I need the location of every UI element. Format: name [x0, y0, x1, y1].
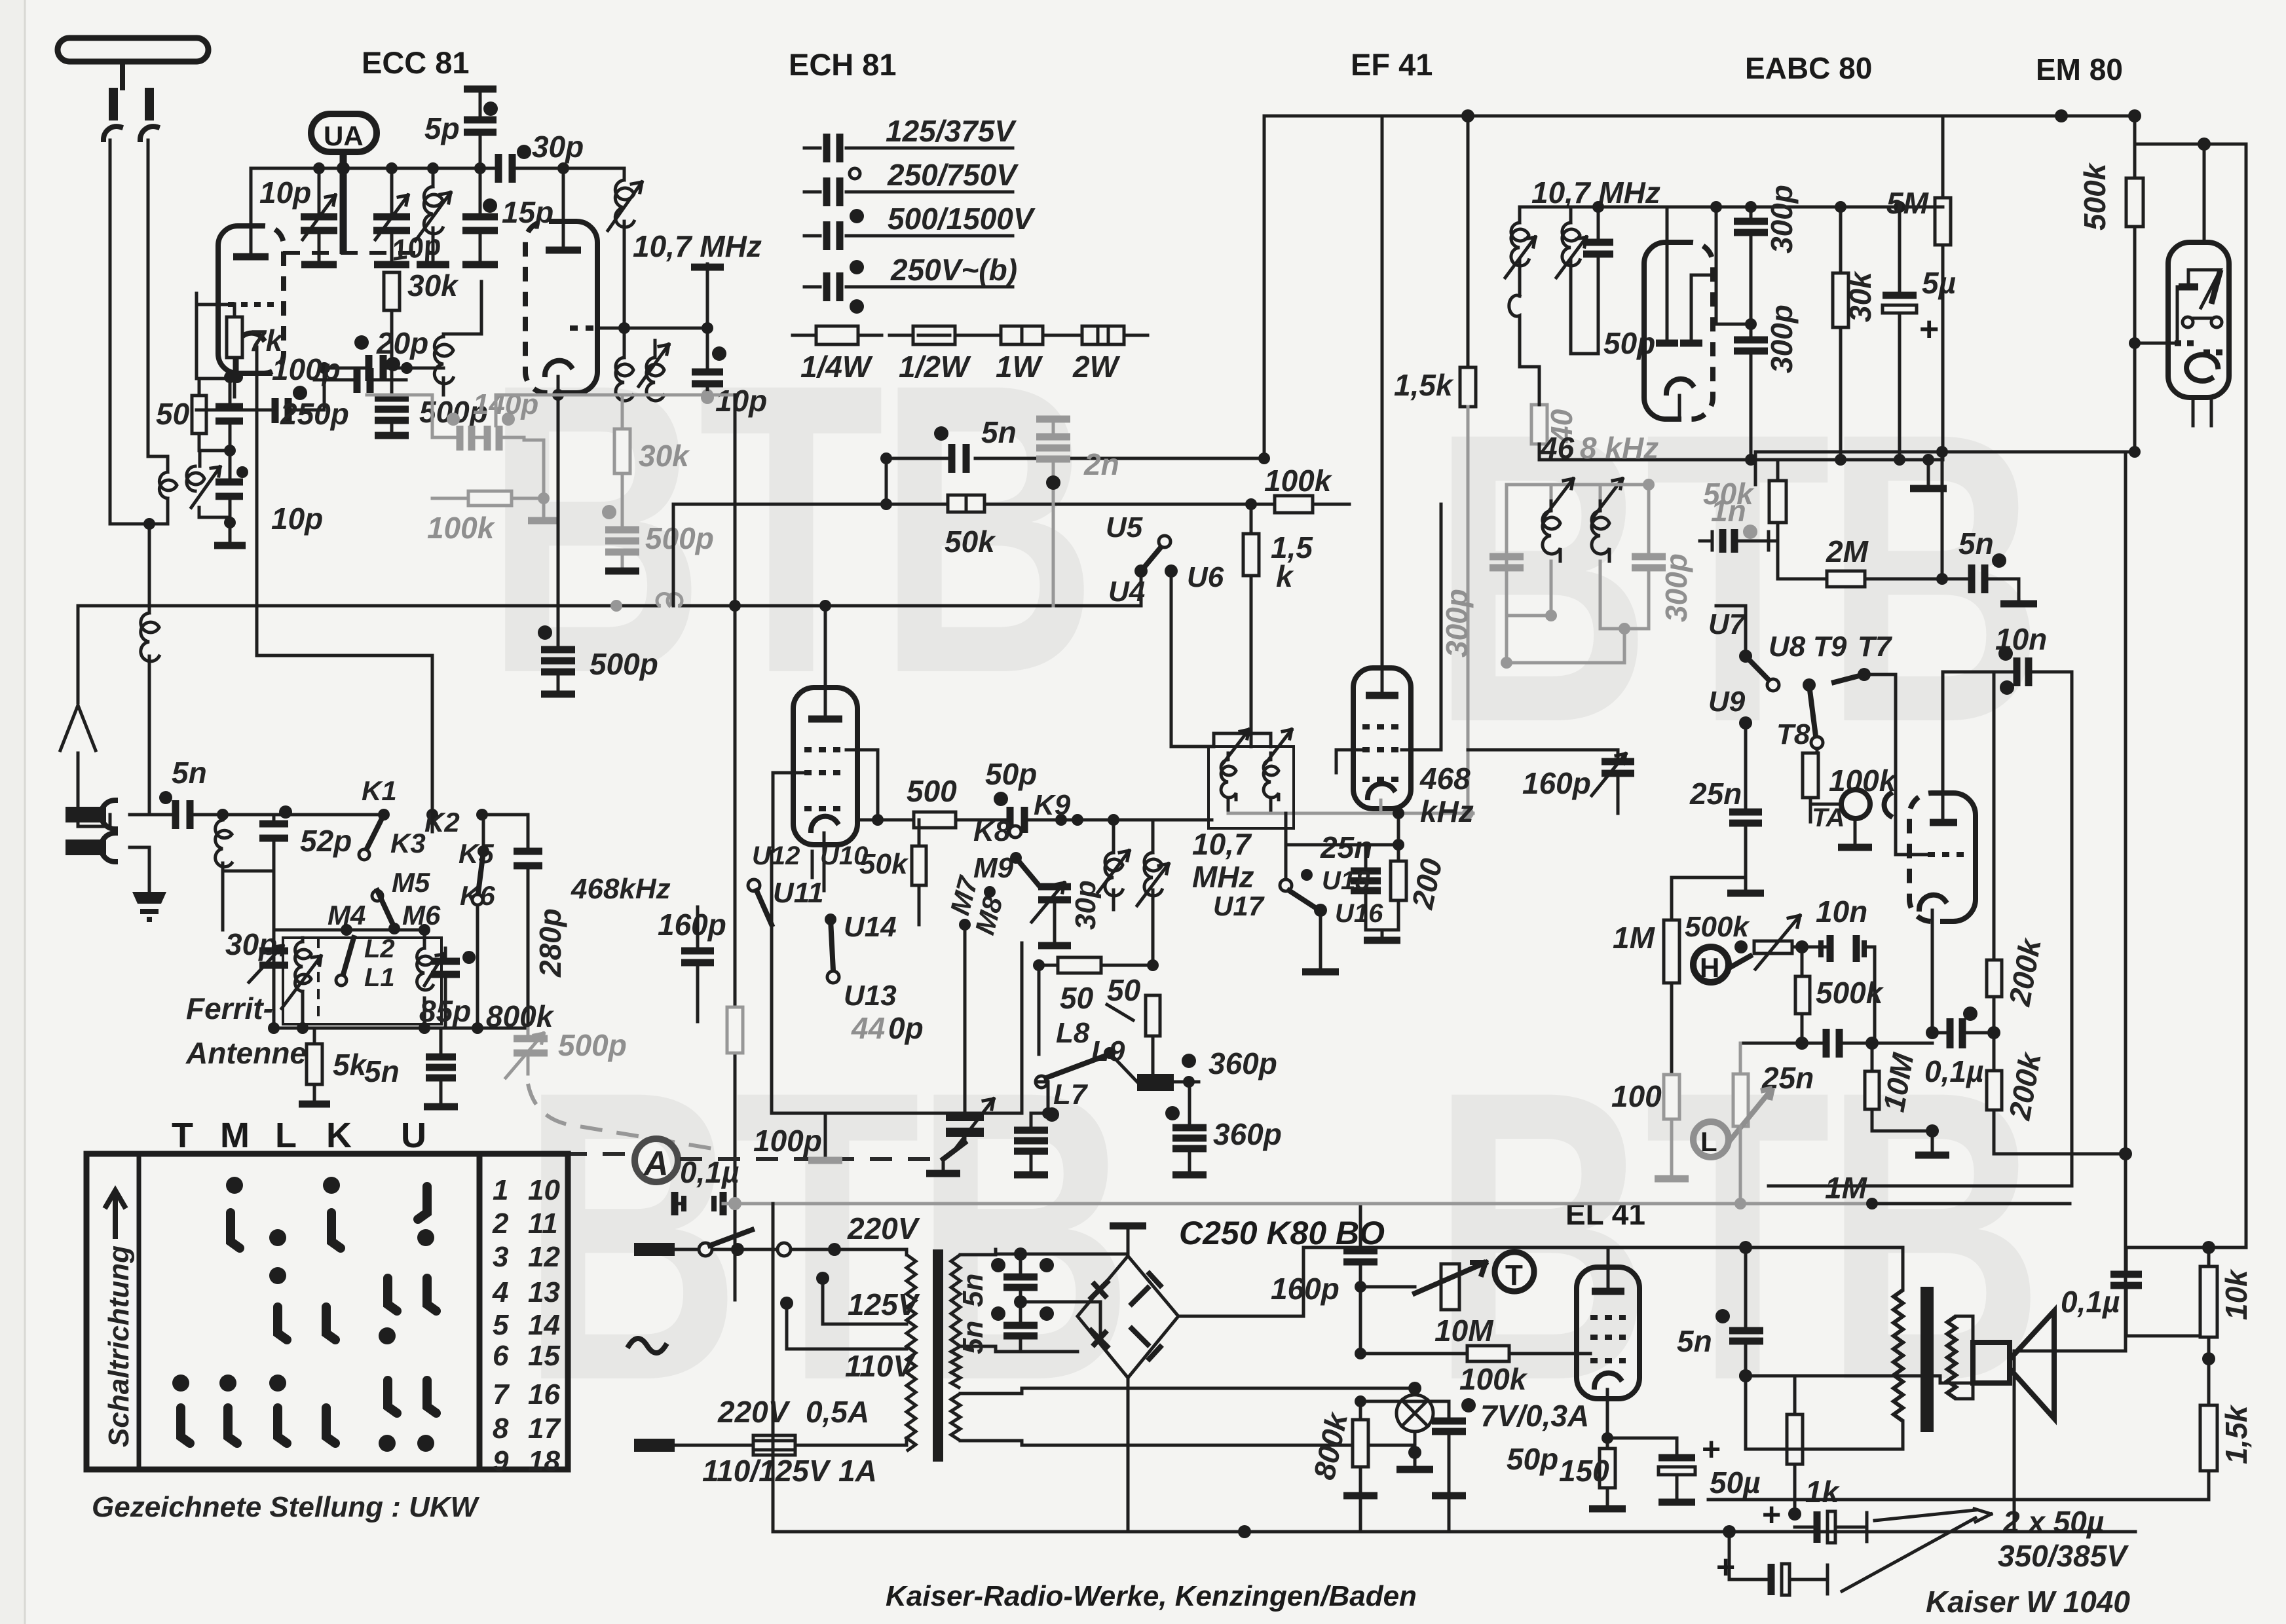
svg-text:L7: L7	[1053, 1079, 1089, 1111]
SECTION: left column	[58, 38, 721, 1150]
ground 200	[1366, 929, 1398, 932]
dial lamp	[1396, 1395, 1433, 1431]
svg-text:UA: UA	[324, 120, 364, 151]
gray 500p cap	[605, 530, 639, 552]
wire EABC out right rail	[2014, 452, 2135, 1532]
capacitor 300p upper	[1734, 221, 1768, 232]
resistor 50k mixer	[912, 846, 926, 885]
contact chart hooks	[181, 1187, 436, 1443]
capacitor 25n H series	[1740, 1042, 1932, 1045]
svg-text:5p: 5p	[424, 111, 460, 145]
capacitor 5n ps top	[1003, 1277, 1038, 1287]
tank det 1	[1507, 485, 1598, 663]
svg-text:U18: U18	[1322, 866, 1370, 895]
svg-text:13: 13	[528, 1276, 560, 1308]
resistor 500k H	[1795, 976, 1810, 1014]
resistor 150 cathode	[1600, 1449, 1615, 1488]
svg-text:T8: T8	[1776, 718, 1810, 750]
coil input coupling	[166, 456, 170, 524]
wire sec return	[1746, 1376, 1903, 1449]
speaker return wires	[1940, 1376, 1973, 1383]
svg-text:EF 41: EF 41	[1351, 47, 1433, 82]
svg-text:16: 16	[528, 1378, 560, 1411]
SECTION: middle	[60, 395, 1349, 1300]
gray cathode line	[1287, 812, 1473, 815]
svg-text:10p: 10p	[715, 384, 767, 418]
svg-text:50k: 50k	[945, 525, 996, 559]
svg-text:L8: L8	[1056, 1017, 1090, 1049]
svg-text:1M: 1M	[1825, 1171, 1868, 1205]
svg-text:110/125V: 110/125V	[702, 1454, 831, 1488]
svg-text:500k: 500k	[1816, 976, 1884, 1010]
resistor 5k	[307, 1044, 322, 1084]
transformer core	[933, 1249, 943, 1462]
svg-text:8 kHz: 8 kHz	[1580, 431, 1658, 465]
cathode EABC80 triode	[1919, 895, 1945, 909]
svg-text:0,5A: 0,5A	[806, 1395, 869, 1429]
switch U11	[748, 879, 760, 891]
svg-text:100: 100	[1611, 1079, 1662, 1113]
wire antenna left lead	[110, 140, 168, 524]
H volume control	[1693, 947, 1729, 982]
svg-text:125V: 125V	[848, 1287, 920, 1321]
capacitor 2n gray	[1036, 416, 1070, 423]
svg-text:15: 15	[528, 1340, 560, 1372]
grid ECC81a	[228, 302, 274, 307]
ferrite coil	[301, 938, 305, 942]
resistor 50k	[948, 495, 984, 512]
svg-text:500p: 500p	[558, 1028, 627, 1062]
capacitor 5n out	[1729, 1331, 1763, 1341]
capacitor 5n ps bottom	[1003, 1325, 1038, 1336]
transformer primary	[905, 1249, 909, 1255]
svg-text:30k: 30k	[407, 268, 459, 303]
trimmer 30p am	[259, 951, 288, 965]
resistor 50	[192, 396, 206, 434]
capacitor 100p mixer	[1014, 1130, 1048, 1151]
SECTION: right	[1264, 109, 2246, 1247]
svg-text:T9: T9	[1813, 631, 1847, 663]
svg-text:5n: 5n	[1677, 1324, 1712, 1358]
svg-text:C250 K80 BO: C250 K80 BO	[1179, 1215, 1385, 1251]
resistor 800k	[727, 1007, 743, 1053]
box mixer	[772, 851, 1022, 1113]
triode ECC81a envelope	[218, 226, 270, 373]
output transformer primary	[1746, 1247, 1903, 1290]
svg-text:100k: 100k	[1459, 1362, 1528, 1396]
dashed line meter	[680, 1157, 943, 1161]
contact chart dots	[172, 1177, 434, 1452]
capacitor 300p lower	[1734, 340, 1768, 351]
capacitor 85p	[431, 961, 460, 974]
svg-text:7k: 7k	[249, 323, 284, 358]
trimmer coil A	[1518, 207, 1522, 223]
svg-text:+: +	[1919, 310, 1939, 348]
wire 1M top	[1672, 876, 1746, 879]
svg-text:10p: 10p	[271, 502, 323, 536]
svg-text:0,1µ: 0,1µ	[680, 1155, 739, 1189]
svg-text:K3: K3	[390, 828, 426, 858]
EF41 cathode	[1368, 784, 1394, 798]
svg-text:220V: 220V	[847, 1211, 920, 1246]
resistor 30k osc	[384, 272, 400, 310]
svg-text:1/2W: 1/2W	[899, 350, 971, 384]
svg-text:50: 50	[156, 397, 190, 431]
svg-text:5n: 5n	[957, 1274, 989, 1307]
capacitor 100p in	[215, 407, 243, 421]
capacitor 10p IF	[702, 322, 713, 334]
mains plug top	[634, 1243, 675, 1256]
wire EM80 sub bus	[2135, 144, 2246, 1247]
cathode ECC81b	[545, 361, 571, 375]
AM input coil	[221, 815, 225, 902]
tank det coil 2	[1592, 479, 1622, 561]
svg-text:220V: 220V	[717, 1395, 791, 1429]
cathode EABC80 diode	[1666, 379, 1693, 393]
EL41 envelope	[1577, 1267, 1608, 1399]
svg-text:L: L	[1700, 1126, 1717, 1157]
EM80 target	[2203, 144, 2206, 242]
wire EL41 plate up	[1608, 1246, 1746, 1249]
switch T7 node	[1858, 668, 1871, 681]
svg-text:2n: 2n	[1083, 447, 1119, 481]
EL41 grids	[1590, 1318, 1626, 1361]
wire det out up	[1941, 452, 1944, 579]
switch K2	[426, 809, 438, 821]
coil tap	[141, 613, 159, 661]
svg-text:110V: 110V	[845, 1349, 915, 1383]
svg-text:L2: L2	[364, 934, 395, 963]
tap 110V	[780, 1297, 793, 1310]
svg-text:U: U	[401, 1116, 432, 1155]
coil grid ECC81b	[442, 334, 445, 337]
svg-text:800k: 800k	[486, 999, 555, 1033]
svg-text:U12: U12	[752, 841, 800, 870]
svg-text:18: 18	[528, 1445, 560, 1477]
AC tilde	[629, 1338, 665, 1353]
grounds mixer	[824, 1113, 827, 1159]
svg-text:EM 80: EM 80	[2036, 52, 2123, 86]
svg-text:52p: 52p	[300, 824, 352, 858]
SECTION: ecc81	[197, 89, 767, 694]
svg-text:L: L	[275, 1116, 302, 1155]
legend resistor 1/4W	[793, 334, 882, 337]
svg-text:EABC 80: EABC 80	[1745, 51, 1872, 85]
wire antenna right lead	[148, 140, 168, 456]
svg-text:+: +	[1762, 1496, 1781, 1533]
mains plug bottom	[634, 1439, 675, 1452]
svg-text:44: 44	[851, 1011, 885, 1045]
capacitor 30p series	[498, 154, 512, 183]
cathode bypass wire	[557, 395, 560, 648]
svg-text:500p: 500p	[590, 647, 658, 681]
legend resistor 1/2W	[890, 334, 979, 337]
resistor 50 vertical	[1146, 995, 1160, 1036]
svg-text:5k: 5k	[333, 1048, 368, 1082]
svg-text:U6: U6	[1187, 561, 1224, 593]
resistor 100k EL41	[1355, 1348, 1366, 1359]
svg-text:MHz: MHz	[1192, 860, 1254, 894]
ECH81 grids	[804, 750, 846, 809]
capacitor 500p osc	[375, 398, 409, 420]
svg-text:85p: 85p	[419, 994, 471, 1028]
chassis ground	[132, 892, 166, 904]
svg-text:50: 50	[1107, 973, 1141, 1007]
svg-text:Schaltrichtung: Schaltrichtung	[103, 1246, 135, 1447]
svg-text:U8: U8	[1769, 631, 1806, 663]
gray 30k column	[621, 397, 624, 429]
switch T9/T8	[1803, 678, 1816, 692]
capacitor 500p cathode	[541, 650, 575, 672]
ECH81 cathode	[811, 817, 837, 830]
svg-text:10p: 10p	[259, 175, 311, 210]
svg-text:500k: 500k	[2078, 162, 2112, 231]
svg-text:300p: 300p	[1659, 553, 1693, 622]
svg-text:30p: 30p	[532, 130, 584, 164]
earth jack	[66, 840, 106, 855]
speaker	[1973, 1342, 2010, 1383]
svg-text:5n: 5n	[1958, 526, 1994, 561]
svg-text:15p: 15p	[502, 195, 553, 229]
capacitor 50p mixer	[1010, 807, 1024, 833]
svg-text:1,5k: 1,5k	[2219, 1404, 2253, 1464]
svg-text:1/4W: 1/4W	[800, 350, 873, 384]
ground 500p gray	[605, 568, 639, 575]
svg-text:4: 4	[492, 1276, 508, 1308]
svg-text:M9: M9	[973, 852, 1014, 884]
magic eye EM80 envelope	[2168, 242, 2199, 397]
ground 5u	[1927, 460, 1930, 486]
legend capacitor 250/750V	[804, 191, 1013, 194]
grid EABC80 triode	[1928, 852, 1966, 857]
resistor 1,5k screen EF41	[1467, 116, 1470, 367]
svg-text:1W: 1W	[996, 350, 1043, 384]
resistor 10M	[1865, 1037, 1879, 1050]
capacitor 100p grid	[197, 409, 324, 412]
svg-text:U16: U16	[1335, 899, 1383, 928]
svg-text:L1: L1	[364, 963, 395, 992]
svg-text:3: 3	[493, 1241, 508, 1273]
node antenna tap	[143, 518, 155, 530]
output transformer core	[1921, 1287, 1934, 1432]
earth arrow	[77, 753, 80, 826]
svg-text:Ferrit-: Ferrit-	[186, 991, 273, 1025]
svg-text:K: K	[326, 1116, 357, 1155]
legend capacitor 125/375V	[804, 147, 1013, 150]
capacitor 5p	[464, 86, 497, 93]
coil osc am1	[1112, 820, 1115, 853]
svg-text:10,7: 10,7	[1192, 827, 1252, 861]
svg-text:5M: 5M	[1886, 186, 1930, 220]
svg-text:50k: 50k	[859, 848, 909, 880]
svg-text:30p: 30p	[225, 927, 277, 961]
wire to switch	[257, 347, 432, 815]
feedback line	[1746, 1375, 1940, 1378]
wire left end down to earth arrow	[60, 606, 96, 750]
switch K1	[378, 809, 390, 821]
svg-text:17: 17	[528, 1412, 561, 1445]
svg-text:U5: U5	[1106, 511, 1143, 544]
svg-text:U17: U17	[1213, 891, 1265, 921]
resistor 500	[914, 812, 956, 828]
EL41 cathode	[1594, 1373, 1621, 1387]
dipole antenna	[58, 38, 208, 62]
capacitor 5u electrolytic	[1898, 207, 1902, 293]
capacitor 5n input	[176, 800, 190, 829]
anode EABC80 triode	[1930, 819, 1957, 826]
capacitor 52p	[259, 824, 288, 838]
resistor 200	[1391, 861, 1406, 900]
svg-text:25n: 25n	[1689, 777, 1742, 811]
svg-text:U4: U4	[1108, 576, 1145, 608]
svg-text:360p: 360p	[1209, 1046, 1277, 1080]
capacitor 5n am	[426, 1057, 456, 1078]
svg-text:5: 5	[493, 1309, 509, 1341]
svg-text:250p: 250p	[280, 397, 349, 431]
svg-text:125/375V: 125/375V	[886, 114, 1017, 148]
resistor 1,5k	[1243, 534, 1259, 576]
vertical trunk x1122	[367, 394, 735, 397]
svg-text:46: 46	[1540, 431, 1575, 465]
grid ECC81b	[570, 325, 597, 331]
meter A	[635, 1139, 678, 1182]
variable coil osc	[427, 162, 439, 174]
svg-text:50: 50	[1060, 981, 1094, 1015]
wire AGC long line	[78, 571, 1141, 606]
ground FM input	[229, 523, 232, 542]
node U6	[1165, 564, 1178, 578]
mixer row wire	[858, 819, 1212, 822]
svg-text:M: M	[220, 1116, 255, 1155]
svg-text:500p: 500p	[645, 521, 714, 555]
svg-text:100k: 100k	[427, 511, 496, 545]
capacitor 25n det	[1729, 812, 1762, 823]
resistor 10k fb	[2207, 1247, 2211, 1266]
svg-text:300p: 300p	[1765, 304, 1799, 373]
svg-text:5n: 5n	[981, 415, 1017, 449]
resistor 2M	[1778, 541, 1827, 579]
svg-text:2W: 2W	[1072, 350, 1121, 384]
resistor 40	[1531, 405, 1547, 444]
capacitor 50u cathode	[1602, 1432, 1613, 1444]
IF transformer 10.7 primary	[623, 328, 626, 358]
output transformer secondary	[1947, 1316, 1956, 1399]
capacitor 50p EL41	[1432, 1421, 1466, 1431]
svg-text:U14: U14	[844, 911, 897, 943]
wire diode out	[1691, 207, 1716, 275]
legend resistor 2W	[1059, 334, 1148, 337]
svg-text:U11: U11	[773, 877, 823, 909]
wire am coil down	[223, 871, 274, 930]
tank det coil 1	[1543, 479, 1573, 561]
IF can 468 at EF41 grid	[1209, 747, 1294, 828]
svg-text:1,5k: 1,5k	[1394, 368, 1454, 402]
svg-text:2M: 2M	[1826, 534, 1869, 568]
coil M6 branch	[417, 948, 433, 990]
svg-text:7: 7	[493, 1378, 510, 1411]
resistor 200k down	[1987, 1071, 2002, 1110]
UA dial lamp	[311, 114, 377, 152]
resistor 1,5k fb	[2200, 1405, 2217, 1471]
svg-text:1n: 1n	[1711, 494, 1746, 528]
svg-text:100k: 100k	[1264, 464, 1333, 498]
resistor 100k plate	[1275, 496, 1313, 513]
triode ECC81b envelope	[525, 221, 563, 393]
svg-text:160p: 160p	[1522, 766, 1591, 800]
band coil box	[283, 938, 441, 1024]
coil RF choke on AGC	[657, 593, 682, 606]
switch U5/U4	[1134, 564, 1148, 578]
FM osc tuned line	[623, 168, 626, 180]
detector bottom line	[1539, 458, 1943, 462]
svg-text:0,1µ: 0,1µ	[1924, 1054, 1983, 1088]
anode ECC81a	[233, 253, 269, 261]
capacitor 50p IF	[1583, 242, 1613, 254]
svg-text:Antenne: Antenne	[185, 1036, 307, 1070]
svg-text:30p: 30p	[1070, 880, 1102, 930]
wire U6 down	[1171, 571, 1214, 747]
resistor 500k EM80	[2128, 109, 2141, 122]
capacitor 5n coupling	[952, 444, 966, 473]
resistor 1k	[1739, 1369, 1752, 1382]
trimmer 10p second	[386, 162, 398, 174]
svg-text:K8: K8	[973, 815, 1011, 847]
capacitor 1n	[1700, 532, 1712, 550]
svg-text:500/1500V: 500/1500V	[888, 202, 1036, 236]
L volume control	[1693, 1122, 1729, 1157]
trimmer coil 10p	[187, 466, 220, 507]
svg-text:1A: 1A	[838, 1454, 877, 1488]
tank det cap 2	[1632, 557, 1666, 568]
svg-text:160p: 160p	[658, 908, 726, 942]
EF41 anode	[1366, 692, 1398, 699]
diode plates EABC80	[1666, 207, 1669, 341]
dashed tuning line left	[528, 1084, 721, 1150]
svg-text:50p: 50p	[1507, 1442, 1558, 1476]
svg-text:12: 12	[528, 1241, 560, 1273]
SECTION: legend	[793, 114, 1148, 384]
trimmer 10p first	[313, 162, 325, 174]
capacitor 140p gray	[432, 436, 524, 439]
svg-text:10n: 10n	[1816, 895, 1867, 929]
wire grounds to bus	[1360, 1493, 1449, 1532]
capacitor 280p	[482, 815, 528, 1028]
fuse	[753, 1435, 795, 1455]
svg-text:U9: U9	[1708, 686, 1746, 718]
svg-text:k: k	[1276, 559, 1294, 593]
svg-text:300p: 300p	[1440, 589, 1474, 657]
wire screen line y770	[673, 503, 1349, 506]
svg-text:8: 8	[493, 1412, 509, 1445]
svg-text:468: 468	[1419, 762, 1471, 796]
svg-text:150: 150	[1559, 1454, 1609, 1488]
legend resistor 1W	[977, 334, 1066, 337]
chart numbers	[492, 1174, 561, 1477]
svg-text:H: H	[1700, 952, 1719, 983]
svg-text:500: 500	[907, 774, 957, 808]
antenna plug pins	[109, 88, 154, 120]
svg-text:kHz: kHz	[1420, 794, 1474, 828]
svg-text:11: 11	[528, 1208, 558, 1240]
triode EABC80 envelope	[1909, 793, 1943, 921]
svg-text:280p: 280p	[533, 908, 567, 978]
SECTION: headings	[362, 45, 2123, 1612]
resistor 50 horizontal	[1058, 957, 1101, 973]
resistor 7k	[227, 317, 242, 358]
secondary HT wires	[996, 1254, 1128, 1352]
capacitor 10p lower	[215, 482, 243, 496]
resistor 100k det	[1816, 748, 1819, 753]
